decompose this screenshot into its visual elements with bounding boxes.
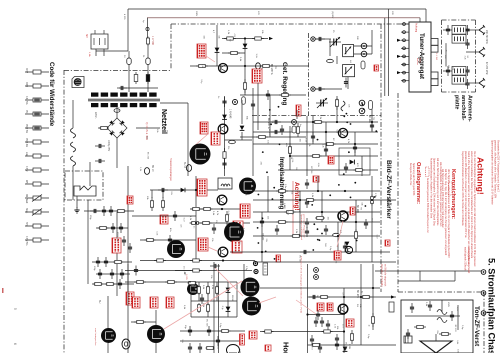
capacitor C916 — [222, 159, 226, 169]
connector speaker — [122, 339, 130, 349]
svg-text:Tuner-Aggregat: Tuner-Aggregat — [418, 33, 425, 79]
svg-text:0065: 0065 — [25, 82, 27, 88]
tuner link box1 — [431, 39, 438, 53]
wire if bus left — [252, 88, 254, 176]
wire if row5 — [278, 169, 378, 171]
svg-text:560: 560 — [324, 243, 326, 247]
coil L802 — [437, 318, 447, 323]
svg-text:47n: 47n — [169, 228, 171, 232]
pink pointer vid3 — [259, 297, 276, 303]
svg-text:82: 82 — [466, 56, 468, 59]
svg-text:2,2μ: 2,2μ — [245, 266, 247, 271]
section border Netzteil corner vertical — [170, 24, 172, 70]
svg-text:0,1μ: 0,1μ — [221, 306, 223, 311]
svg-text:an Bildrohr eingesetzt: an Bildrohr eingesetzt — [384, 264, 387, 287]
capacitor C402b — [168, 235, 172, 245]
svg-text:22k: 22k — [348, 104, 350, 108]
capacitor C302 — [324, 145, 328, 155]
svg-text:33k: 33k — [290, 191, 292, 195]
svg-text:4,7k: 4,7k — [347, 139, 349, 144]
capacitor C212 — [344, 78, 348, 88]
svg-text:25: 25 — [332, 30, 334, 33]
wire iflink rows — [315, 30, 372, 89]
svg-text:1,5k: 1,5k — [335, 259, 337, 264]
svg-text:220V~: 220V~ — [94, 112, 96, 119]
red note box iflink — [374, 65, 379, 71]
svg-text:5,6k: 5,6k — [202, 285, 204, 290]
svg-text:BC 237 A: BC 237 A — [270, 64, 273, 75]
power transistor T900 disc — [190, 144, 211, 165]
svg-text:1n: 1n — [368, 325, 370, 328]
tiny tonzf values — [425, 302, 463, 330]
capacitor C205 — [266, 90, 270, 100]
svg-text:BF 199: BF 199 — [268, 129, 270, 137]
node dots if — [289, 121, 373, 157]
wire zf row4 — [253, 221, 380, 223]
transformer primary — [88, 93, 160, 101]
wire zf row1 — [253, 190, 380, 192]
svg-text:B Punkt 2,5 M mit Oszillograph: B Punkt 2,5 M mit Oszillograph zum Bildr… — [300, 256, 303, 313]
svg-text:05/1: 05/1 — [25, 110, 27, 115]
red pointer line imp — [292, 181, 294, 236]
transistor T602 disc — [241, 278, 260, 297]
svg-text:1,2k: 1,2k — [189, 216, 191, 221]
svg-text:BC 237 A: BC 237 A — [267, 118, 270, 129]
wire bus1 left drop — [127, 9, 129, 51]
svg-text:470: 470 — [311, 346, 313, 350]
pill video label — [263, 263, 268, 275]
capacitor C502 — [275, 225, 279, 235]
capacitor C804 — [406, 329, 410, 339]
node agc a — [244, 37, 246, 39]
wire agc v1 — [216, 25, 218, 66]
red note box zf6 — [328, 156, 334, 164]
bridge rectifier GL900 — [107, 118, 127, 138]
wire ho col a — [308, 264, 374, 353]
svg-text:BC 238: BC 238 — [205, 319, 207, 327]
svg-text:1 N 4148: 1 N 4148 — [229, 109, 231, 119]
svg-text:gemessen, alle Angaben ohne Ge: gemessen, alle Angaben ohne Gewaehr, Tol… — [494, 140, 497, 199]
red text transistor note — [169, 158, 172, 181]
svg-text:BF 199: BF 199 — [356, 205, 359, 213]
transistor T901 disc — [101, 328, 116, 343]
jack ho 2 — [314, 275, 319, 280]
filter can F2 — [343, 65, 355, 77]
svg-text:Netzteil: Netzteil — [160, 109, 167, 134]
antenna filter units — [443, 25, 466, 84]
svg-text:10k: 10k — [261, 30, 263, 34]
jack video out1 — [253, 261, 258, 266]
resistor Rv2 — [220, 329, 231, 332]
transistor T package — [227, 345, 240, 353]
mains switch box — [65, 171, 103, 200]
svg-text:BF 199: BF 199 — [262, 234, 264, 242]
wire reg column — [224, 96, 226, 176]
svg-text:mit einer BAS Eingangsspannung: mit einer BAS Eingangsspannung von 2 mV … — [436, 158, 439, 226]
tiny if values — [285, 115, 358, 167]
label reg col values — [217, 96, 248, 149]
svg-text:100μ: 100μ — [93, 266, 95, 271]
red text tonzf note — [380, 264, 387, 287]
tiny labels on bus lines — [123, 11, 393, 23]
Ton-ZF amp box — [401, 300, 473, 353]
svg-text:1,2k: 1,2k — [334, 324, 336, 329]
svg-text:Antennen-: Antennen- — [467, 95, 473, 122]
resistor Rv0 — [188, 281, 197, 284]
svg-text:Lp: Lp — [142, 20, 144, 23]
jack ho 1 — [314, 268, 319, 273]
diode Dl1 — [226, 288, 231, 293]
red note box imp6 — [233, 221, 243, 229]
tiny ladder values — [183, 270, 233, 310]
svg-text:TO: TO — [271, 120, 273, 123]
red text far right — [464, 247, 471, 274]
svg-text:5,6k: 5,6k — [201, 64, 203, 69]
svg-text:1000μ 35V: 1000μ 35V — [107, 140, 109, 152]
wire bus2 left drop — [146, 18, 149, 38]
svg-text:anschluß-: anschluß- — [460, 95, 466, 121]
svg-text:10μ: 10μ — [184, 325, 186, 329]
diode Dzf — [345, 242, 350, 247]
svg-text:12k: 12k — [170, 191, 172, 195]
svg-text:0,1μ: 0,1μ — [219, 323, 221, 328]
section border bild bottom — [398, 291, 484, 293]
transistor T410 — [217, 195, 227, 205]
wire reg mid row — [225, 139, 253, 141]
svg-text:Messwerte bei 220 V Netzspannu: Messwerte bei 220 V Netzspannung und Kan… — [497, 140, 500, 193]
svg-text:BC 238: BC 238 — [344, 342, 346, 350]
section border tonzf right — [483, 292, 485, 353]
label imp vals1 — [212, 211, 218, 216]
connector BL13 — [183, 162, 192, 171]
svg-text:alle Oszillogramme in Zeilenfr: alle Oszillogramme in Zeilenfrequenz gem… — [439, 162, 442, 227]
svg-text:BC 238: BC 238 — [299, 255, 301, 263]
resistor R507v — [370, 195, 373, 206]
svg-text:BU 13: BU 13 — [151, 165, 153, 172]
resistor Rl2 — [206, 285, 209, 295]
capacitor Cho4 — [335, 334, 339, 350]
wire t601 — [131, 310, 156, 353]
wire zf row2 — [253, 199, 396, 201]
diode Dl2 — [226, 307, 231, 312]
svg-text:150μ: 150μ — [89, 215, 91, 220]
capacitor C400 — [158, 188, 168, 192]
diode Dho — [343, 347, 348, 352]
ground switch — [74, 207, 79, 213]
wire switch drop — [76, 196, 78, 208]
wire agc row5 — [240, 110, 306, 137]
wire ladder top — [175, 270, 252, 272]
transistor T902 — [218, 124, 228, 134]
wire top bus line 2 — [147, 17, 420, 19]
resistor R916 oval — [229, 140, 236, 143]
svg-text:1,2k: 1,2k — [156, 231, 158, 236]
capacitor C210 — [315, 37, 325, 41]
svg-text:Austastwert bezogen, Angaben i: Austastwert bezogen, Angaben in Vss bei … — [429, 158, 432, 219]
svg-text:L4: L4 — [349, 60, 351, 63]
svg-text:Achtung: Achtung — [415, 23, 418, 33]
resistor R301v — [335, 96, 338, 110]
svg-text:33k: 33k — [202, 35, 204, 39]
resistor R201 — [224, 37, 236, 40]
resistor oval agc — [327, 59, 334, 62]
filter can F1 — [343, 45, 354, 57]
red heading Kennzeichnungen — [450, 169, 456, 219]
svg-text:82: 82 — [332, 138, 334, 141]
svg-text:6: 6 — [13, 343, 17, 345]
label lp values — [123, 36, 153, 58]
capacitor Cho3 — [326, 320, 330, 330]
red heading Achtung imp — [293, 182, 300, 211]
fuse Si2 — [146, 58, 150, 65]
wire imp row d — [140, 260, 255, 262]
label Bild-ZF-Verstaerker — [385, 160, 392, 219]
resistor R503 — [285, 210, 296, 213]
resistor R202 — [252, 37, 264, 40]
red note box zf5 — [334, 251, 341, 260]
mains filter plug — [91, 30, 128, 56]
svg-text:beim: beim — [419, 58, 421, 63]
wire zf row6 — [230, 251, 390, 253]
capacitor disc — [344, 163, 348, 173]
svg-text:8,2k: 8,2k — [287, 211, 289, 216]
resistor R302 — [313, 120, 324, 123]
jack iflink in2 — [311, 87, 315, 91]
svg-text:33k: 33k — [295, 167, 297, 171]
transistor T701 — [338, 304, 348, 314]
capacitor C304 — [353, 143, 357, 153]
red heading Achtung — [476, 157, 486, 195]
svg-text:470: 470 — [342, 324, 344, 328]
resistor Rl3 — [215, 285, 218, 295]
red body imp note — [300, 214, 305, 240]
trimmer agc2 — [316, 98, 328, 108]
capacitor C303 — [370, 121, 374, 131]
pill iflink — [361, 61, 365, 69]
diode D200 — [215, 48, 220, 53]
red note box ho2 — [327, 303, 333, 311]
svg-text:15k: 15k — [215, 220, 217, 224]
section border iflink bottom — [252, 115, 381, 117]
label trafo values — [94, 112, 109, 152]
resistor Rho5 — [263, 330, 274, 333]
svg-text:12V: 12V — [257, 11, 259, 15]
svg-text:0,1μ: 0,1μ — [200, 79, 202, 84]
left imp parts — [150, 197, 177, 224]
svg-text:1,5k: 1,5k — [238, 349, 240, 353]
capacitor Cho0 — [309, 295, 319, 299]
wire imp row a — [150, 189, 218, 191]
svg-text:R918 1,3k: R918 1,3k — [116, 232, 118, 242]
resistor R502 — [305, 198, 316, 201]
wire imp vertical main — [195, 176, 197, 262]
red label tuner link — [435, 53, 437, 61]
svg-text:3,3n: 3,3n — [304, 138, 306, 143]
svg-text:BC 238: BC 238 — [310, 166, 312, 174]
svg-text:6,8k: 6,8k — [317, 163, 319, 168]
transistor T603 disc — [242, 297, 261, 316]
wire top bus line 1 — [128, 8, 426, 10]
svg-text:BU: BU — [98, 300, 101, 304]
capacitor Cv2 — [188, 326, 211, 336]
resistor R307v — [288, 143, 291, 157]
connector box tonzf — [404, 336, 412, 343]
resistor Lp1847 — [147, 37, 150, 46]
diode D902 — [240, 100, 245, 140]
jack av 2 — [481, 291, 486, 296]
wire imp left rows — [132, 190, 196, 216]
section border Netzteil left — [63, 70, 65, 353]
wire ho rows — [260, 288, 396, 345]
red note box imp5 — [232, 241, 242, 253]
svg-text:22k: 22k — [265, 239, 267, 243]
capacitor Cl1 — [200, 294, 204, 304]
svg-text:Horizontal: Horizontal — [282, 342, 291, 353]
wire vid col — [214, 262, 244, 353]
resistor Rl5 — [206, 303, 209, 313]
wire if row1 — [253, 121, 378, 123]
red note box zf7 — [313, 176, 319, 182]
svg-text:0503 4%: 0503 4% — [25, 138, 27, 147]
jack av 3 — [481, 311, 486, 316]
pill agc val — [292, 126, 296, 133]
connector jack agc — [256, 63, 261, 69]
svg-text:zum Lautsprecher: zum Lautsprecher — [94, 328, 97, 346]
tiny imp values — [146, 196, 244, 233]
svg-text:33V: 33V — [391, 11, 393, 15]
transistor T601 disc — [147, 325, 165, 343]
jack av 1 — [481, 270, 486, 275]
svg-text:0,1μ: 0,1μ — [329, 246, 331, 251]
red note box vid2 — [240, 334, 245, 345]
capacitor C501 — [260, 217, 264, 227]
wire bottom left cols — [125, 264, 191, 353]
red note box 1N4148 agc — [197, 44, 206, 58]
red note box border1 — [385, 240, 390, 246]
ho extra labels — [336, 326, 350, 349]
capacitor column imp right — [305, 179, 309, 237]
wire ladder lower rows — [180, 331, 245, 341]
svg-text:33k: 33k — [217, 35, 219, 39]
svg-text:5,6k: 5,6k — [156, 129, 158, 134]
red note box D900 — [200, 122, 208, 134]
label antenna values — [485, 30, 487, 75]
red body text block b — [441, 169, 450, 258]
resistor R406 — [190, 259, 202, 262]
red text vert ho — [300, 256, 303, 313]
white box border ho — [389, 302, 394, 312]
resistor R404 — [201, 221, 212, 224]
red note box T501 — [350, 207, 355, 215]
svg-text:1 4 180: 1 4 180 — [435, 53, 437, 61]
node dots zf — [261, 190, 373, 253]
resistor R306v — [296, 123, 299, 137]
transistor T501 — [338, 211, 348, 221]
node imp dots — [195, 189, 235, 262]
svg-text:56k: 56k — [246, 116, 248, 120]
svg-text:0,47: 0,47 — [375, 235, 377, 240]
svg-text:100: 100 — [457, 349, 459, 353]
section border top dash-dot — [171, 23, 409, 25]
resistor R501 — [276, 189, 288, 192]
svg-text:560: 560 — [336, 130, 338, 134]
diode D901 — [222, 115, 227, 120]
label Get. Regelung — [281, 62, 288, 105]
wire zf verticals — [262, 176, 372, 262]
svg-text:47n: 47n — [180, 224, 182, 228]
transistor T301 — [338, 128, 347, 137]
label Netzteil — [160, 109, 167, 134]
wire bridge feeds — [98, 107, 160, 168]
capacitor C305 — [271, 120, 281, 134]
resistor R206 — [243, 79, 246, 93]
label Antennen-anschluss-platte — [454, 95, 473, 122]
wire low branch — [107, 296, 109, 353]
jack IF out 1 — [361, 43, 367, 49]
section border iflink left — [308, 33, 310, 116]
tuner pins left — [401, 23, 409, 83]
capacitor C505 — [343, 242, 347, 252]
resistor R602 — [165, 280, 177, 283]
legend value labels — [25, 68, 28, 245]
svg-text:5,6k: 5,6k — [425, 302, 427, 307]
svg-text:82: 82 — [229, 39, 231, 42]
IF transformer box — [218, 178, 232, 189]
resistor R407 — [145, 238, 156, 241]
red text right of achtung — [491, 140, 500, 205]
svg-text:10k: 10k — [327, 217, 329, 221]
junction dot texture — [257, 104, 377, 260]
capacitor Cho2 — [314, 317, 324, 327]
tuner pin arrows — [397, 39, 401, 74]
wire transformer top link — [119, 87, 158, 89]
tiny scattered value labels — [117, 34, 468, 353]
mark fold a — [13, 308, 17, 310]
red body text block c — [409, 158, 442, 233]
svg-text:0,47: 0,47 — [182, 218, 184, 223]
wire agc row2 — [222, 39, 245, 67]
coil L801 — [437, 310, 447, 315]
resistor R902 — [134, 72, 138, 84]
svg-text:4,7k: 4,7k — [216, 211, 218, 216]
svg-text:Stab.: Stab. — [25, 208, 28, 214]
svg-text:1,5k: 1,5k — [311, 193, 313, 198]
svg-text:Ton-ZF-Verst: Ton-ZF-Verst — [473, 306, 480, 347]
resistor R917 — [223, 148, 226, 162]
wire agc down — [245, 66, 270, 137]
svg-text:SiV: SiV — [85, 34, 88, 38]
capacitor C913 — [122, 236, 132, 253]
svg-text:1,2k: 1,2k — [227, 30, 229, 35]
diode D400 — [181, 188, 185, 192]
red note box vid — [249, 331, 257, 339]
capacitor C401 — [212, 224, 216, 234]
svg-text:6,8k: 6,8k — [456, 340, 458, 345]
resistor R905 — [99, 126, 109, 129]
mark fold b — [13, 343, 17, 345]
svg-text:(2) 98V: (2) 98V — [331, 11, 333, 19]
capacitor Cv3 — [216, 336, 220, 346]
wire tonzf inner — [405, 300, 460, 330]
resistor R205 — [261, 64, 271, 67]
connector BU13 — [144, 165, 153, 174]
wire agc row3 — [190, 65, 309, 67]
label ho col — [356, 290, 369, 339]
transistor partial zf — [345, 246, 352, 253]
svg-text:L505: L505 — [447, 302, 449, 308]
capacitor C915 — [222, 97, 226, 107]
capacitor C211 — [315, 87, 325, 91]
